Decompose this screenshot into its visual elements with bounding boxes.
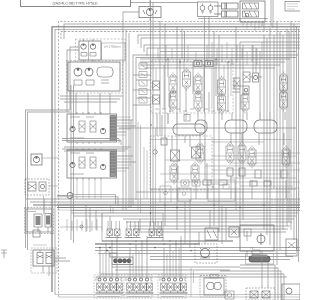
spool V9 far right	[280, 72, 288, 95]
main pump assembly box	[68, 62, 120, 91]
label above block	[33, 244, 47, 246]
spool V5 lower row	[169, 89, 177, 112]
control valve box A	[67, 112, 117, 144]
wire horizontal to manifold	[60, 226, 102, 228]
small valve circles row	[181, 180, 200, 186]
wire title to right	[131, 2, 198, 4]
gauge box bottom right	[240, 225, 274, 251]
bus wires second band	[138, 35, 300, 56]
gauge box top right	[198, 2, 269, 113]
pill envelope row	[173, 120, 277, 135]
sub boxes above band	[160, 180, 235, 202]
far left loop wire 2	[28, 112, 71, 250]
pilot manifold box	[102, 213, 163, 241]
far left loop wire	[26, 110, 71, 248]
small bits below columns	[203, 168, 287, 186]
dashed enclosure pump assembly	[67, 61, 123, 94]
wires central bank bottom exits	[168, 112, 285, 124]
valve column row (mid right)	[196, 142, 204, 165]
X-valve M2	[192, 147, 201, 158]
svg-text:LH 1750rpm: LH 1750rpm	[104, 45, 121, 49]
spool V8 right	[241, 91, 249, 114]
accumulator (dark)	[246, 254, 274, 265]
solenoid group enclosures	[94, 275, 186, 298]
wire stubs below valve block	[243, 22, 259, 31]
tall box right	[286, 239, 297, 256]
dashed box right mid	[270, 188, 300, 200]
right edge verticals	[291, 21, 299, 262]
wires below pumps horizontal	[60, 96, 123, 102]
small box above accumulator	[252, 250, 260, 254]
central bank port dots	[150, 58, 229, 126]
thick pilot line	[102, 240, 233, 242]
small sensor box	[161, 138, 167, 145]
verticals from pilot row up	[86, 205, 160, 232]
pilot valve assembly PG2	[125, 221, 141, 238]
wire drops to HM2	[191, 268, 194, 297]
bus wires top band	[52, 21, 300, 297]
long vertical trunks center	[151, 0, 220, 232]
wire through filter	[57, 195, 118, 206]
label text LH	[102, 43, 126, 60]
gauge pair	[194, 61, 213, 67]
relief valve lower left bank	[153, 95, 160, 104]
wires central bank verticals	[168, 59, 228, 112]
wire horizontals mid right	[150, 140, 292, 143]
filter F1 on line	[67, 193, 73, 199]
left verticals	[70, 85, 72, 240]
wires frame to central bank	[133, 75, 151, 105]
riser wires central top	[158, 45, 196, 62]
relief valve left of bank	[153, 81, 160, 90]
svg-text:T2: T2	[250, 246, 254, 250]
manifold pins up	[111, 206, 114, 213]
extra verticals bottom mid	[185, 199, 268, 288]
vertical trunk bundle left of frame	[123, 21, 129, 210]
nested corners bottom right	[96, 265, 287, 300]
small pump box left	[31, 154, 42, 165]
wires pump assembly down	[76, 93, 110, 114]
riser wires into bank header	[207, 42, 262, 65]
dashed enclosure bottom left block	[31, 248, 57, 273]
pilot valve assembly PG1	[106, 221, 122, 238]
wire pump vertical	[149, 0, 151, 21]
tank mark left edge	[1, 250, 7, 258]
cylinder CY2	[214, 11, 238, 17]
spool column S1	[170, 162, 178, 185]
wire drops from valve block	[262, 22, 264, 31]
right bank verticals	[264, 21, 283, 265]
central valve bank dashed enclosure	[151, 61, 233, 113]
spool V6 lower row	[194, 90, 202, 113]
check valve circle	[153, 150, 157, 154]
mid cluster dashed enclosure	[150, 136, 212, 190]
dashed enclosure gear pump	[76, 39, 126, 62]
bus band blur underlay	[57, 204, 300, 210]
wire mid verticals	[138, 122, 156, 226]
solenoid group SG1	[96, 277, 124, 297]
relief small box	[229, 227, 239, 237]
bottom left valve block	[33, 250, 54, 266]
spool V7 lower row	[218, 92, 226, 115]
wire pump left	[123, 12, 139, 21]
spool V4	[218, 76, 226, 99]
spool V2	[183, 68, 191, 91]
bottom bus band	[26, 199, 300, 232]
spool V10 far right	[280, 89, 288, 112]
wire horizontals mid right field	[160, 153, 300, 186]
port ticks below central bank	[155, 109, 229, 111]
control valve box B	[67, 148, 117, 180]
right bank valves	[234, 72, 259, 94]
svg-text:(2AZ/4LC-5B) TYPE HY5LD: (2AZ/4LC-5B) TYPE HY5LD	[52, 2, 97, 6]
frame top lines	[131, 55, 298, 208]
cluster left lower (pilot filter)	[25, 208, 54, 234]
lines mid bottom	[95, 248, 300, 260]
wire from pump box down	[84, 60, 94, 62]
wires from A/B right to trunk	[117, 120, 137, 168]
pump P1 (pilot pump, top center)	[139, 7, 161, 18]
gear pump box (left top)	[79, 39, 101, 60]
pilot valve PG4	[205, 228, 218, 240]
wire stubs left of manifold	[67, 219, 97, 231]
horizontal lines lower mid	[112, 267, 240, 270]
wires mid columns to band	[177, 133, 286, 202]
cylinder CY1 (top right)	[214, 3, 238, 9]
header lines central bank	[140, 59, 290, 68]
hydraulic motor HM1 (dashed box)	[195, 244, 217, 263]
spool column S4	[238, 142, 246, 165]
wires right of central bank	[233, 77, 262, 92]
check valve ladder left of bank	[139, 63, 147, 103]
spool V3	[194, 73, 202, 96]
wire long horizontal mid	[119, 127, 296, 129]
solenoid group SG3	[160, 277, 188, 297]
spool column S6	[282, 146, 290, 169]
small box above block	[33, 230, 40, 237]
pilot valve assembly PG3	[148, 221, 164, 238]
vertical drops to solenoid groups	[100, 236, 181, 277]
label box top right corner	[285, 2, 301, 12]
bottom boxes	[246, 288, 275, 300]
wire drop to left cluster	[44, 196, 45, 214]
valve block top right	[240, 1, 265, 22]
wires from gear pump	[67, 47, 79, 112]
junction circle	[80, 225, 83, 228]
spool V1	[169, 73, 177, 96]
spool column S5	[248, 146, 256, 169]
X-valve M1	[171, 150, 180, 161]
title block	[21, 0, 131, 7]
junction dots band	[99, 204, 265, 251]
small valve bottom center-right	[225, 291, 234, 299]
wire small pump box to verticals	[42, 158, 59, 186]
cluster left mid (regulator)	[25, 179, 49, 195]
central bank inner verticals	[156, 59, 231, 109]
spool column S3	[226, 142, 234, 165]
hydraulic motor HM2	[200, 275, 226, 298]
solenoid group SG2	[126, 277, 154, 297]
spool column S2	[191, 162, 199, 185]
wire drops below box B	[71, 178, 101, 199]
wires bottom left block	[43, 258, 70, 276]
wire horizontals above band	[136, 189, 296, 192]
wire bundle between A and B	[62, 139, 131, 152]
small pump group bottom center	[110, 253, 133, 265]
